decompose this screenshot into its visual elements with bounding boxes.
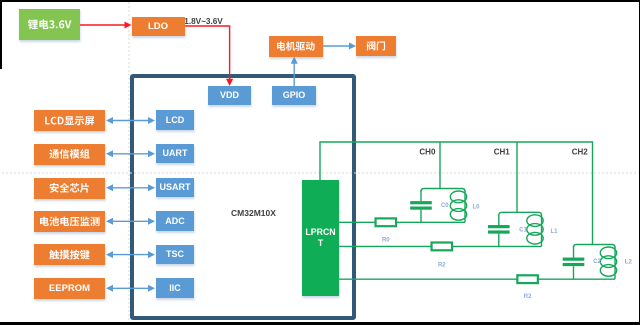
wire motor-driver to valve (blue arrow right)	[323, 45, 352, 47]
inductor L2	[614, 247, 616, 280]
label CM32M10X	[213, 208, 294, 218]
frame left	[0, 0, 2, 69]
frame right	[639, 0, 640, 325]
LDO box	[132, 17, 185, 37]
frame bottom	[0, 322, 640, 325]
wire 3 (to tank 2)	[339, 278, 615, 280]
pin box UART	[156, 144, 194, 164]
peripheral box LCD显示屏	[34, 110, 105, 131]
wire row 1 double arrow	[112, 153, 150, 155]
tank 1 loop top wire	[499, 212, 542, 215]
motor driver box	[269, 36, 323, 57]
node CH0 drop wire	[439, 142, 441, 189]
wire row 3 double arrow	[112, 220, 150, 222]
peripheral box 触摸按键	[34, 244, 105, 265]
pin box LCD	[156, 110, 194, 130]
resistor R2 (wire 2)	[432, 243, 453, 251]
tank 0 loop top wire	[421, 189, 465, 192]
resistor R0	[376, 218, 397, 226]
resistor R2 (wire 3)	[517, 275, 538, 283]
inductor L1	[541, 214, 543, 246]
wire LPRCNT top rail	[320, 142, 593, 245]
capacitor C2	[573, 247, 575, 258]
wire 1 (to tank 0)	[339, 221, 465, 223]
wire row 0 double arrow	[112, 120, 150, 122]
wire row 2 double arrow	[112, 187, 150, 189]
frame top	[0, 0, 640, 2]
MCU outline CM32M10X	[130, 74, 356, 320]
battery 3.6V box	[19, 9, 80, 40]
capacitor C1	[498, 214, 500, 225]
pin box IIC	[156, 278, 194, 298]
inductor L0	[464, 191, 466, 223]
guide line horizontal	[2, 172, 639, 174]
wire 2 (to tank 1)	[339, 245, 542, 247]
VDD pin box	[208, 86, 251, 105]
peripheral box 电池电压监测	[34, 211, 105, 232]
pin box USART	[156, 178, 194, 198]
LPRCNT box	[302, 180, 339, 296]
guide line vertical	[128, 2, 130, 322]
GPIO pin box	[272, 86, 316, 105]
peripheral box 安全芯片	[34, 178, 105, 199]
capacitor C0	[420, 191, 422, 202]
peripheral box EEPROM	[34, 278, 105, 299]
wire GPIO to motor-driver (blue arrow up)	[293, 62, 295, 87]
wire row 5 double arrow	[112, 287, 150, 289]
wire battery to LDO (red arrow)	[80, 24, 127, 26]
node CH1 drop wire	[516, 142, 518, 212]
pin box TSC	[156, 245, 194, 265]
pin box ADC	[156, 211, 194, 231]
tank 2 loop top wire	[574, 245, 616, 248]
wire row 4 double arrow	[112, 254, 150, 256]
valve box	[356, 36, 396, 56]
peripheral box 通信模组	[34, 144, 105, 165]
wire LDO to VDD (red arrow)	[185, 26, 230, 80]
